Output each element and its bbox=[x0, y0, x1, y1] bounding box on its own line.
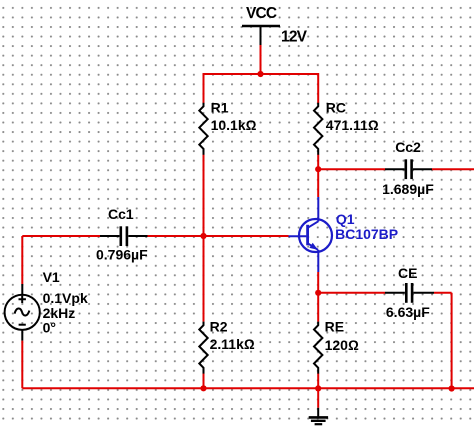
wire collector node to Cc2 bbox=[318, 168, 385, 170]
svg-text:0.1Vpk: 0.1Vpk bbox=[43, 290, 88, 306]
wire R1 bottom to R2 top bbox=[203, 155, 205, 322]
svg-text:BC107BP: BC107BP bbox=[335, 226, 398, 242]
resistor R1 bbox=[199, 103, 207, 155]
svg-text:Q1: Q1 bbox=[336, 211, 355, 227]
wire VCC stem bbox=[260, 44, 262, 74]
svg-text:CE: CE bbox=[398, 265, 417, 281]
junction base node bbox=[200, 233, 206, 239]
svg-text:V1: V1 bbox=[43, 269, 60, 285]
wire RE bottom bbox=[317, 373, 319, 388]
wire Cc2 output to right edge bbox=[432, 168, 474, 170]
wire R2 bottom bbox=[203, 373, 205, 388]
svg-text:Cc2: Cc2 bbox=[395, 139, 421, 155]
svg-text:120Ω: 120Ω bbox=[325, 337, 359, 353]
junction RE ground bbox=[315, 385, 321, 391]
junction VCC rail bbox=[257, 71, 263, 77]
capacitor CE bbox=[385, 283, 434, 303]
svg-text:10.1kΩ: 10.1kΩ bbox=[211, 117, 257, 133]
svg-text:6.63µF: 6.63µF bbox=[386, 304, 430, 320]
junction emitter node bbox=[315, 290, 321, 296]
junction CE ground bbox=[449, 385, 455, 391]
junction collector node bbox=[315, 166, 321, 172]
svg-text:R2: R2 bbox=[210, 319, 228, 335]
svg-text:RE: RE bbox=[325, 318, 344, 334]
wire ground stem bbox=[317, 388, 319, 407]
svg-text:RC: RC bbox=[326, 100, 346, 116]
source V1 bbox=[5, 284, 40, 341]
wire bottom rail bbox=[22, 387, 474, 389]
svg-text:2kHz: 2kHz bbox=[43, 305, 76, 321]
svg-text:471.11Ω: 471.11Ω bbox=[326, 117, 379, 133]
wire CE right corner bbox=[434, 293, 452, 389]
wire emitter node to CE bbox=[318, 292, 385, 294]
wire R1 top bbox=[203, 73, 205, 103]
resistor RE bbox=[314, 322, 322, 374]
resistor R2 bbox=[199, 322, 207, 374]
resistor RC bbox=[314, 103, 322, 155]
power symbol VCC bbox=[242, 26, 280, 45]
transistor Q1 bbox=[289, 197, 333, 272]
wire V1 top horizontal to Cc1 bbox=[22, 235, 100, 237]
svg-text:1.689µF: 1.689µF bbox=[382, 181, 434, 197]
wire RC bottom to collector bbox=[317, 155, 319, 198]
wire top rail bbox=[204, 73, 319, 75]
wire Cc1 to base bbox=[148, 235, 289, 237]
svg-text:Cc1: Cc1 bbox=[108, 206, 134, 222]
capacitor Cc2 bbox=[385, 159, 432, 179]
svg-text:2.11kΩ: 2.11kΩ bbox=[210, 336, 255, 352]
svg-text:R1: R1 bbox=[211, 100, 229, 116]
wire V1 top vertical bbox=[21, 236, 23, 284]
wire V1 bottom bbox=[21, 341, 23, 389]
svg-text:0°: 0° bbox=[43, 320, 56, 336]
wire emitter to RE top bbox=[317, 272, 319, 322]
ground bbox=[309, 408, 328, 424]
wire RC top bbox=[317, 73, 319, 103]
junction R2 ground bbox=[200, 385, 206, 391]
svg-text:VCC: VCC bbox=[246, 5, 277, 22]
capacitor Cc1 bbox=[100, 226, 148, 246]
svg-text:0.796µF: 0.796µF bbox=[96, 247, 148, 263]
svg-text:12V: 12V bbox=[281, 28, 308, 45]
